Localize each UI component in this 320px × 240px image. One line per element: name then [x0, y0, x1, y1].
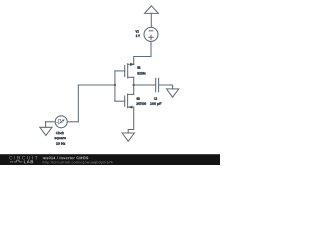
- footer url text: [43, 161, 113, 164]
- wire gate link vertical: [114, 71, 116, 101]
- capacitor C3: [156, 78, 159, 92]
- node input junction dot: [114, 84, 116, 86]
- label Clock: [56, 132, 64, 135]
- ground at clock: [40, 127, 52, 135]
- wire capacitor to ground: [159, 85, 173, 89]
- wire M1 drain down to output node: [133, 77, 135, 94]
- label square: [54, 137, 66, 140]
- ground at capacitor: [167, 89, 179, 97]
- voltage source V3: [144, 27, 158, 41]
- power flag VDD: [145, 6, 159, 14]
- label M1: [138, 66, 141, 69]
- wire V3 bottom down: [150, 41, 152, 56]
- label BSS84: [138, 72, 146, 75]
- transistor M1: [115, 63, 135, 78]
- logo text CIRCUIT: [9, 156, 37, 160]
- wire clock riser: [77, 85, 79, 122]
- node output junction dot: [133, 84, 135, 86]
- label C3: [154, 97, 157, 100]
- wire VDD to V3 top: [150, 13, 152, 27]
- label 2N7000: [136, 102, 146, 105]
- wire output to capacitor: [134, 84, 156, 86]
- label 100 pF: [150, 102, 161, 105]
- transistor M3: [115, 94, 134, 109]
- ground under M3: [122, 133, 134, 141]
- wire clock right lead: [67, 121, 78, 123]
- wire clock ground stem: [45, 122, 47, 128]
- clock source V1: [55, 116, 67, 128]
- wire across to M1 source column: [134, 56, 151, 58]
- logo CIRCUIT LAB: [10, 160, 23, 162]
- label 8 V: [136, 35, 140, 38]
- wire clock left lead: [46, 121, 56, 123]
- label M3: [137, 97, 140, 100]
- label 10 Hz: [56, 142, 65, 145]
- wire input horizontal: [78, 84, 115, 86]
- label V3: [136, 30, 139, 33]
- footer bar: [0, 154, 220, 165]
- wire M3 source down: [128, 107, 134, 133]
- logo text LAB: [24, 160, 33, 163]
- footer title text: [43, 156, 88, 159]
- wire down to M1 source: [133, 57, 135, 65]
